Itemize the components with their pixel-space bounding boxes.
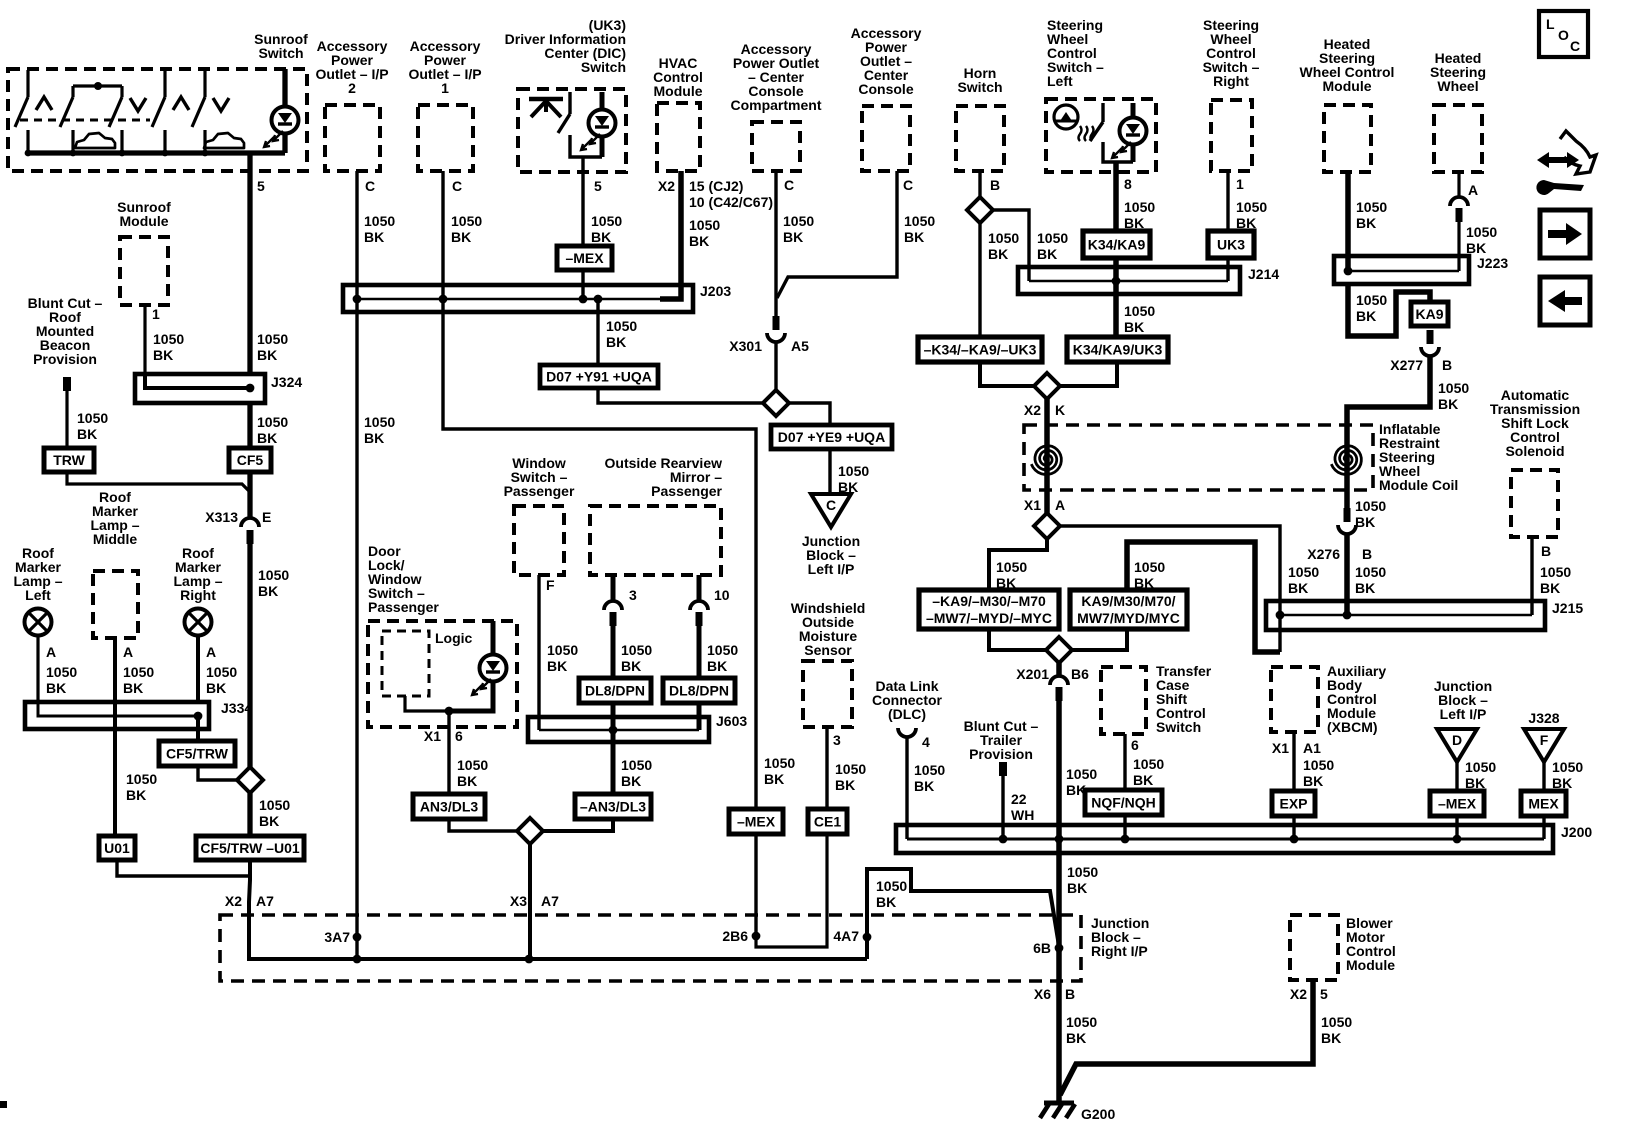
- wire AN3/DL3 to diamond: [449, 819, 517, 831]
- svg-text:(XBCM): (XBCM): [1327, 719, 1378, 735]
- svg-text:BK: BK: [1466, 240, 1486, 256]
- svg-text:CF5/TRW: CF5/TRW: [166, 746, 229, 762]
- wire APO2 to J203: [355, 171, 358, 299]
- connector KA9: [1411, 302, 1448, 326]
- wire label 1050 BK: [257, 414, 288, 446]
- svg-text:4A7: 4A7: [833, 928, 859, 944]
- wire J324 to CF5: [247, 403, 252, 448]
- wire K34 box to diamond: [1058, 362, 1117, 386]
- label X1: [1272, 740, 1289, 756]
- svg-text:Switch: Switch: [581, 59, 626, 75]
- accessory power outlet I/P 1 box: [418, 105, 473, 171]
- svg-text:X276: X276: [1307, 546, 1340, 562]
- svg-text:1050: 1050: [689, 217, 720, 233]
- svg-text:CF5/TRW –U01: CF5/TRW –U01: [200, 840, 300, 856]
- HVAC control module box: [657, 103, 700, 171]
- label Sunroof Switch: [254, 31, 308, 61]
- svg-text:BK: BK: [1288, 580, 1308, 596]
- junction door lock: [445, 707, 454, 716]
- auxiliary body control module box: [1271, 667, 1318, 732]
- steering wheel control switch right box: [1211, 100, 1252, 171]
- connector DL8/DPN a: [579, 678, 651, 703]
- wire label 1050 BK: [126, 771, 157, 803]
- wire lamp middle to J334: [113, 638, 117, 702]
- svg-text:6: 6: [1131, 737, 1139, 753]
- label X313: [205, 509, 238, 525]
- pin 5 DIC: [594, 178, 602, 194]
- label Door Lock Window Switch Passenger: [368, 543, 439, 615]
- pin A: [46, 644, 56, 660]
- svg-text:X1: X1: [1272, 740, 1289, 756]
- connector TRW: [44, 448, 94, 472]
- pin A: [206, 644, 216, 660]
- svg-text:6: 6: [455, 728, 463, 744]
- svg-text:1050: 1050: [1355, 498, 1386, 514]
- wire diamond to coil X2K: [1044, 398, 1050, 430]
- wire door lock to AN3/DL3: [447, 711, 450, 794]
- svg-text:1050: 1050: [1303, 757, 1334, 773]
- pin 15 CJ2: [689, 178, 743, 194]
- svg-text:KA9: KA9: [1415, 306, 1443, 322]
- label Inflatable Restraint SWM Coil: [1379, 421, 1458, 493]
- svg-text:K34/KA9: K34/KA9: [1088, 237, 1146, 253]
- connector -AN3/DL3: [575, 794, 651, 819]
- svg-text:Switch: Switch: [1156, 719, 1201, 735]
- svg-text:1050: 1050: [606, 318, 637, 334]
- pin 1: [1236, 176, 1244, 192]
- inline connector X201: [1050, 676, 1068, 701]
- svg-text:X1: X1: [424, 728, 441, 744]
- wire label 1050 BK: [206, 664, 237, 696]
- inline connector mirror pin3: [604, 601, 622, 626]
- lamp roof marker right: [185, 609, 212, 636]
- svg-text:1050: 1050: [1066, 766, 1097, 782]
- svg-text:Passenger: Passenger: [368, 599, 439, 615]
- svg-text:B: B: [1442, 357, 1452, 373]
- wire J203 to D07+Y91: [596, 299, 599, 365]
- label Transfer Case Shift Control Switch: [1156, 663, 1212, 735]
- hand direction icon: [1536, 131, 1596, 195]
- junction block right I/P box: [220, 915, 1081, 981]
- junction J200 -MEX: [1453, 835, 1462, 844]
- connector -MEX splice: [729, 809, 783, 834]
- connector CF5: [229, 448, 271, 472]
- wire X6B to G200: [1056, 981, 1062, 1103]
- svg-text:BK: BK: [257, 430, 277, 446]
- svg-text:3: 3: [833, 732, 841, 748]
- svg-text:O: O: [1558, 27, 1569, 43]
- wire HVAC to J203: [660, 171, 681, 299]
- junction bus X3A7: [525, 955, 534, 964]
- svg-text:1050: 1050: [591, 213, 622, 229]
- junction J200 X201: [1055, 835, 1064, 844]
- junction block terminal F J328: [1524, 729, 1564, 762]
- svg-text:EXP: EXP: [1279, 796, 1307, 812]
- wire DLC to J200: [905, 736, 908, 839]
- svg-text:BK: BK: [764, 771, 784, 787]
- svg-text:BK: BK: [77, 426, 97, 442]
- SWCS-L switch blade: [1090, 103, 1133, 162]
- wire HSW to J223: [1457, 222, 1460, 271]
- wire mirror pin10: [697, 575, 702, 601]
- svg-text:1050: 1050: [1133, 756, 1164, 772]
- connector U01: [99, 836, 135, 860]
- svg-text:Switch: Switch: [957, 79, 1002, 95]
- svg-text:BK: BK: [46, 680, 66, 696]
- label HVAC Control Module: [653, 55, 703, 99]
- wire -MEX to 2B6: [754, 834, 757, 936]
- wire sunroof switch LED to bus: [282, 133, 287, 153]
- label Steering Wheel Control Switch Left: [1047, 17, 1104, 89]
- svg-text:1050: 1050: [1552, 759, 1583, 775]
- wire APOCC joins X301: [777, 171, 897, 298]
- label Blower Motor Control Module: [1346, 915, 1396, 973]
- wire CF5 to X313: [247, 472, 252, 518]
- pin A: [1055, 497, 1065, 513]
- svg-text:Left: Left: [1047, 73, 1073, 89]
- svg-text:1050: 1050: [1355, 564, 1386, 580]
- windshield outside moisture sensor box: [803, 661, 852, 727]
- wire label 1050 BK: [707, 642, 738, 674]
- wire 6B to X6 B: [1056, 948, 1062, 981]
- svg-text:1050: 1050: [257, 414, 288, 430]
- svg-text:BK: BK: [689, 233, 709, 249]
- wire APO2 J203 to 3A7: [355, 299, 358, 959]
- junction bus 3A7: [353, 955, 362, 964]
- pin X2: [658, 178, 675, 194]
- svg-text:1050: 1050: [364, 213, 395, 229]
- wire label 1050 BK: [1134, 559, 1165, 591]
- terminal 3A7: [324, 929, 350, 945]
- svg-text:1050: 1050: [1465, 759, 1496, 775]
- wire X1A diamond right to J215: [1059, 526, 1280, 652]
- coil SWM left: [1031, 446, 1061, 475]
- svg-text:X301: X301: [729, 338, 762, 354]
- svg-text:BK: BK: [364, 430, 384, 446]
- svg-text:BK: BK: [258, 583, 278, 599]
- label J603: [716, 713, 747, 729]
- pin C: [452, 178, 462, 194]
- svg-text:BK: BK: [988, 246, 1008, 262]
- wire J334 internal bus: [38, 702, 198, 716]
- svg-text:1050: 1050: [783, 213, 814, 229]
- connector K34/KA9/UK3: [1067, 337, 1168, 362]
- wire label 1050 BK: [123, 664, 154, 696]
- wire TRW to X313: [67, 472, 250, 500]
- DIC switch blade: [558, 92, 602, 157]
- outside rearview mirror passenger box: [590, 506, 721, 575]
- svg-text:22: 22: [1011, 791, 1027, 807]
- inline connector X301: [767, 316, 785, 342]
- svg-text:J334: J334: [221, 700, 252, 716]
- svg-text:1050: 1050: [1540, 564, 1571, 580]
- splice pack J603: [528, 717, 709, 742]
- connector MEX: [1521, 791, 1566, 816]
- svg-text:Right: Right: [1213, 73, 1249, 89]
- svg-text:BK: BK: [1355, 514, 1375, 530]
- label J200: [1561, 824, 1592, 840]
- junction J215 right: [1343, 611, 1352, 620]
- accessory power outlet center console compartment box: [752, 122, 800, 171]
- wire logic to node: [405, 696, 449, 711]
- svg-text:1050: 1050: [1037, 230, 1068, 246]
- connector KA9/M30/M70/MW7/MYD/MYC: [1070, 590, 1187, 629]
- svg-text:1050: 1050: [1236, 199, 1267, 215]
- label X277: [1390, 357, 1423, 373]
- svg-text:1050: 1050: [1124, 199, 1155, 215]
- label J328: [1528, 710, 1559, 726]
- wire label 1050 BK: [1133, 756, 1164, 788]
- svg-text:F: F: [1540, 732, 1549, 748]
- pin B: [1362, 546, 1372, 562]
- svg-text:BK: BK: [259, 813, 279, 829]
- svg-text:1: 1: [152, 306, 160, 322]
- wire SWCS-L LED feed: [1131, 103, 1136, 118]
- svg-text:BK: BK: [876, 894, 896, 910]
- pin B6: [1071, 666, 1089, 682]
- wire diamond to X201 connector: [1056, 662, 1062, 676]
- label Accessory Power Outlet I/P 2: [315, 38, 388, 96]
- connector NQF/NQH: [1085, 790, 1162, 815]
- svg-text:BK: BK: [621, 658, 641, 674]
- svg-text:B: B: [1065, 986, 1075, 1002]
- pin A: [1468, 182, 1478, 198]
- svg-text:Left: Left: [25, 587, 51, 603]
- connector DL8/DPN b: [663, 678, 735, 703]
- sunroof switch S1 box: [8, 69, 307, 171]
- wire mirror pin3: [611, 575, 616, 601]
- label J214: [1248, 266, 1279, 282]
- wire J200 internal bus: [907, 838, 1544, 841]
- lamp roof marker left: [25, 609, 52, 636]
- wire DIC to -MEX: [581, 157, 584, 246]
- wire through left coil: [1044, 430, 1050, 514]
- junction J223: [1344, 267, 1353, 276]
- label X3: [510, 893, 527, 909]
- junction J215 left: [1276, 611, 1285, 620]
- splice pack J214: [1018, 267, 1240, 294]
- label Data Link Connector DLC: [872, 678, 943, 722]
- junction J200 trailer: [999, 835, 1008, 844]
- label Sunroof Module: [117, 199, 171, 229]
- svg-text:X6: X6: [1034, 986, 1051, 1002]
- wire sunroof switch LED feed: [282, 69, 287, 107]
- wire label 1050 BK: [1438, 380, 1469, 412]
- svg-text:Module: Module: [120, 213, 169, 229]
- label DIC switch: [505, 17, 626, 75]
- svg-text:Provision: Provision: [33, 351, 97, 367]
- svg-text:X2: X2: [225, 893, 242, 909]
- splice diamond X1A: [1034, 513, 1060, 539]
- inline connector X313: [241, 518, 259, 544]
- svg-text:Module: Module: [1323, 78, 1372, 94]
- svg-text:C: C: [826, 497, 836, 513]
- svg-text:3A7: 3A7: [324, 929, 350, 945]
- wire through right coil: [1344, 430, 1350, 508]
- wire label 1050 BK: [996, 559, 1027, 591]
- junction block left I/P terminal C: [811, 494, 851, 527]
- svg-text:1050: 1050: [123, 664, 154, 680]
- svg-text:NQF/NQH: NQF/NQH: [1091, 795, 1156, 811]
- wire label 1050 BK: [457, 757, 488, 789]
- junction J203 APO2: [353, 295, 362, 304]
- svg-text:X3: X3: [510, 893, 527, 909]
- svg-text:BK: BK: [153, 347, 173, 363]
- svg-text:D07 +Y91 +UQA: D07 +Y91 +UQA: [546, 369, 652, 385]
- wire label 1050 BK: [835, 761, 866, 793]
- svg-text:MW7/MYD/MYC: MW7/MYD/MYC: [1077, 610, 1180, 626]
- label Blunt Cut Trailer Provision: [964, 718, 1039, 762]
- wire lamp right to J334: [196, 636, 200, 702]
- svg-text:1050: 1050: [153, 331, 184, 347]
- svg-text:1: 1: [1236, 176, 1244, 192]
- splice pack J200: [896, 825, 1553, 853]
- wire X276 to J215: [1344, 533, 1350, 615]
- wire label 1050 BK: [1124, 199, 1155, 231]
- steering wheel control switch left box: [1046, 99, 1156, 172]
- pin A1: [1303, 740, 1321, 756]
- pin 5 sunroof switch: [257, 178, 265, 194]
- svg-text:AN3/DL3: AN3/DL3: [420, 799, 479, 815]
- svg-text:C: C: [903, 177, 913, 193]
- svg-text:X2: X2: [1024, 402, 1041, 418]
- accessory power outlet I/P 2 box: [325, 105, 380, 171]
- svg-text:J324: J324: [271, 374, 302, 390]
- svg-text:–AN3/DL3: –AN3/DL3: [580, 799, 646, 815]
- svg-text:J328: J328: [1528, 710, 1559, 726]
- wire lamp left to J334: [36, 636, 39, 702]
- wire pin10 to DL8/DPN: [697, 626, 702, 678]
- svg-text:–MEX: –MEX: [737, 814, 776, 830]
- label X2: [1290, 986, 1307, 1002]
- svg-text:BK: BK: [206, 680, 226, 696]
- label Logic: [435, 630, 473, 646]
- wire J223 internal bus: [1348, 270, 1459, 273]
- blower motor control module box: [1290, 915, 1338, 980]
- wire label 1050 BK: [1540, 564, 1571, 596]
- pin A5: [791, 338, 809, 354]
- node 2B6: [752, 932, 761, 941]
- pin 5: [1320, 986, 1328, 1002]
- automatic transmission shift lock control solenoid box: [1511, 470, 1558, 537]
- label X2: [1024, 402, 1041, 418]
- svg-text:1: 1: [441, 80, 449, 96]
- svg-text:WH: WH: [1011, 807, 1034, 823]
- label Roof Marker Lamp Right: [173, 545, 222, 603]
- label J324: [271, 374, 302, 390]
- junction J603: [609, 726, 618, 735]
- pin K: [1055, 402, 1065, 418]
- wire J214 to K34/KA9/UK3: [1113, 281, 1119, 337]
- coil SWM right: [1331, 446, 1361, 475]
- wire label 1050 BK: [1355, 498, 1386, 530]
- svg-text:BK: BK: [364, 229, 384, 245]
- sunroof switch contacts: [15, 70, 285, 156]
- heated steering wheel control module box: [1324, 105, 1371, 172]
- label J203: [700, 283, 731, 299]
- junction J200 NQF: [1121, 835, 1130, 844]
- inline connector mirror pin10: [690, 601, 708, 626]
- door lock window switch passenger box: [368, 621, 517, 727]
- wire LED to node: [449, 681, 493, 711]
- svg-text:BK: BK: [1066, 1030, 1086, 1046]
- connector UK3: [1208, 231, 1254, 258]
- wire SWCS-L to K34/KA9: [1113, 162, 1119, 231]
- svg-text:C: C: [452, 178, 462, 194]
- wire D07+YE9 to junction block C: [828, 449, 831, 494]
- wire X1A diamond down to -KA9 box: [989, 538, 1047, 590]
- wire APO1 to -MEX: [443, 299, 756, 809]
- svg-text:BK: BK: [451, 229, 471, 245]
- svg-text:–MEX: –MEX: [1438, 796, 1477, 812]
- wire HSW to connector: [1457, 172, 1460, 198]
- wire U01 down: [117, 860, 250, 876]
- wire sunroof switch pin5 to J324: [247, 153, 252, 374]
- accessory power outlet center console box: [862, 106, 910, 171]
- transfer case shift control switch box: [1101, 667, 1146, 734]
- pin C: [784, 177, 794, 193]
- wire X201 to J200: [1056, 701, 1062, 839]
- connector D07+Y91+UQA: [540, 365, 658, 388]
- svg-text:X2: X2: [1290, 986, 1307, 1002]
- wire trailer to J200: [1001, 776, 1004, 839]
- connector cup DLC: [898, 728, 916, 737]
- wire door lock LED feed: [491, 621, 496, 655]
- wire DIC LED to bus: [600, 136, 605, 157]
- svg-text:BK: BK: [1133, 772, 1153, 788]
- svg-text:Sensor: Sensor: [804, 642, 852, 658]
- svg-text:1050: 1050: [1067, 864, 1098, 880]
- svg-text:Module: Module: [1346, 957, 1395, 973]
- connector K34/KA9: [1083, 231, 1150, 258]
- splice pack J215: [1266, 601, 1545, 630]
- svg-text:A1: A1: [1303, 740, 1321, 756]
- svg-text:X2: X2: [658, 178, 675, 194]
- label G200: [1081, 1106, 1115, 1122]
- wire X301 to diamond: [774, 341, 777, 392]
- wire label 1050 BK: [1037, 230, 1068, 262]
- svg-text:5: 5: [594, 178, 602, 194]
- junction J203 APO1: [439, 295, 448, 304]
- wire label 1050 BK: [914, 762, 945, 794]
- svg-text:Middle: Middle: [93, 531, 138, 547]
- wire X313 to diamond: [247, 544, 252, 768]
- svg-text:Solenoid: Solenoid: [1505, 443, 1564, 459]
- svg-text:1050: 1050: [1321, 1014, 1352, 1030]
- svg-text:Console: Console: [858, 81, 913, 97]
- junction J200 EXP: [1290, 835, 1299, 844]
- pin A: [123, 644, 133, 660]
- svg-text:2B6: 2B6: [722, 928, 748, 944]
- label X276: [1307, 546, 1340, 562]
- wire label 1050 BK: [764, 755, 795, 787]
- wire label 1050 BK: [1066, 1014, 1097, 1046]
- wire label 1050 BK: [783, 213, 814, 245]
- svg-text:3: 3: [629, 587, 637, 603]
- svg-text:BK: BK: [1356, 308, 1376, 324]
- svg-text:Module Coil: Module Coil: [1379, 477, 1458, 493]
- wire UK3 to J214: [1226, 258, 1229, 281]
- roof marker lamp middle box: [93, 571, 138, 638]
- connector D07+YE9+UQA: [771, 425, 892, 449]
- svg-text:1050: 1050: [1356, 292, 1387, 308]
- svg-text:J603: J603: [716, 713, 747, 729]
- svg-text:1050: 1050: [707, 642, 738, 658]
- svg-text:1050: 1050: [1356, 199, 1387, 215]
- svg-text:X1: X1: [1024, 497, 1041, 513]
- svg-text:5: 5: [1320, 986, 1328, 1002]
- splice pack J203: [343, 285, 693, 312]
